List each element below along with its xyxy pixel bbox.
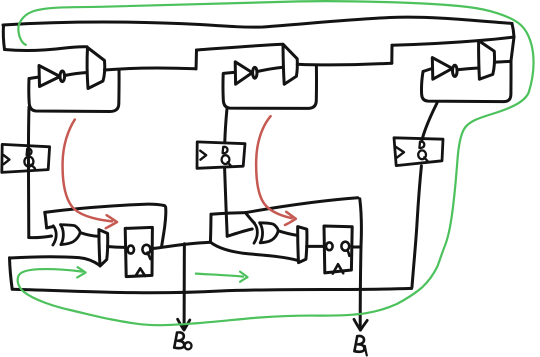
flip-flop F1 pin Q circle right	[142, 245, 150, 259]
wire jog 1 vertical	[195, 50, 199, 69]
wire loop box 3 (feedback U)	[422, 62, 512, 102]
inverter N3 triangle	[432, 58, 452, 80]
mux M1 (small trapezoid)	[99, 230, 108, 266]
label B1	[354, 336, 364, 352]
label B0 subscript o	[185, 342, 192, 349]
wire band lower left into buffer 1	[5, 47, 88, 51]
flip-flop F2 box	[324, 226, 352, 273]
wire XOR G2 output	[278, 231, 297, 236]
wire jog to buffer X3 and band right	[392, 37, 514, 45]
buffer X1 (trapezoid stage 1)	[87, 48, 105, 89]
wire output B0 drop	[183, 244, 186, 329]
wire loop box 3 to inverter N3 input	[423, 68, 432, 71]
inverter N3 bubble	[453, 65, 458, 76]
latch L3 clock triangle	[395, 147, 404, 159]
wire loop box 2 (feedback U)	[223, 67, 317, 109]
xor gate G1	[53, 225, 80, 245]
wire drop stage3 loop through latch L3 to bottom	[412, 103, 437, 287]
wire jog up from cell1 output	[209, 214, 213, 242]
label Q latch L2	[222, 155, 232, 166]
label Q latch L1	[24, 157, 35, 169]
wire inverter N2 to buffer X2	[257, 67, 283, 71]
flip-flop F1 box	[125, 227, 152, 276]
arrowhead B1	[354, 319, 367, 330]
wire feedback cell2 top	[245, 198, 357, 213]
wire mux M2 to flip-flop F2	[307, 245, 324, 248]
wire flip-flop F2 output	[352, 246, 361, 249]
wire latch L1 to XOR G1 lower input	[29, 236, 52, 238]
label D latch L1	[27, 149, 32, 155]
wire lower mid-left to mux M1 bottom	[10, 257, 100, 266]
wire mux M1 to flip-flop F1	[108, 245, 125, 249]
inverter N1 triangle	[39, 66, 60, 87]
wire drop stage1 loop to latch L1	[27, 107, 31, 238]
wire loop box 1 to inverter N1 input	[30, 77, 40, 79]
latch L1 box	[2, 144, 50, 172]
wire XOR G1 output	[80, 233, 99, 237]
latch L3 box	[394, 138, 443, 166]
wire feedback cell1 top	[45, 204, 166, 246]
latch L2 box	[197, 142, 245, 168]
label D latch L3	[419, 142, 424, 148]
wire bottom-left corner vertical	[10, 258, 13, 289]
wire loop box 1 (feedback U)	[29, 70, 119, 112]
green arrow cell2	[196, 272, 248, 282]
buffer X3 (trapezoid stage 3)	[479, 41, 495, 80]
label B1 subscript tick	[365, 346, 367, 356]
label B0	[174, 332, 184, 348]
wire jog to buffer X2	[197, 44, 283, 50]
flip-flop F2 clock triangle	[333, 264, 343, 273]
wire stage2 output to jog	[297, 63, 392, 65]
wire feedback band top	[3, 17, 512, 27]
wire flip-flop F1 output	[152, 242, 210, 248]
wire band left vertical	[3, 26, 4, 50]
wire feedback cell2 corner into XOR G2	[245, 213, 254, 224]
label Q latch L3	[418, 150, 428, 161]
xor gate G2	[254, 223, 278, 243]
arrowhead green loop	[77, 267, 85, 277]
wire buffer X3 output to box3 right edge	[495, 60, 511, 64]
wire feedback cell1 left corner into XOR G1	[45, 212, 53, 228]
wire feedback cell2 right edge and B1 drop	[360, 199, 362, 329]
latch L2 clock triangle	[200, 151, 206, 160]
label D latch L2	[223, 147, 228, 153]
flip-flop F2 pin circle left	[326, 242, 333, 250]
wire stage1 output to jog	[105, 68, 197, 70]
inverter N2 triangle	[235, 62, 252, 84]
red arrow cell2	[256, 116, 296, 225]
flip-flop F2 pin Q circle right	[341, 242, 349, 256]
red arrow cell1	[63, 120, 117, 229]
wire drop stage2 loop to latch L2	[225, 108, 228, 236]
flip-flop F1 clock triangle	[135, 268, 145, 276]
arrowhead B0	[178, 319, 190, 330]
inverter N2 bubble	[253, 67, 257, 78]
wire latch L2 to XOR G2 lower input	[227, 229, 252, 236]
wire bottom long	[12, 288, 411, 292]
wire band right vertical	[511, 24, 514, 62]
wire inverter N3 to buffer X3	[457, 68, 478, 70]
wire across to cell2	[211, 213, 245, 215]
flip-flop F1 pin circle left	[128, 246, 134, 254]
wire sweep to mux M2 bottom	[210, 242, 297, 260]
latch L1 clock triangle	[3, 155, 9, 164]
buffer X2 (trapezoid stage 2)	[283, 44, 297, 84]
wire inverter N1 to buffer X1	[65, 73, 87, 76]
mux M2 (small trapezoid)	[298, 227, 307, 263]
wire jog 2 vertical	[390, 45, 393, 63]
inverter N1 bubble	[60, 71, 65, 82]
wire loop box 2 to inverter N2 input	[223, 72, 235, 73]
